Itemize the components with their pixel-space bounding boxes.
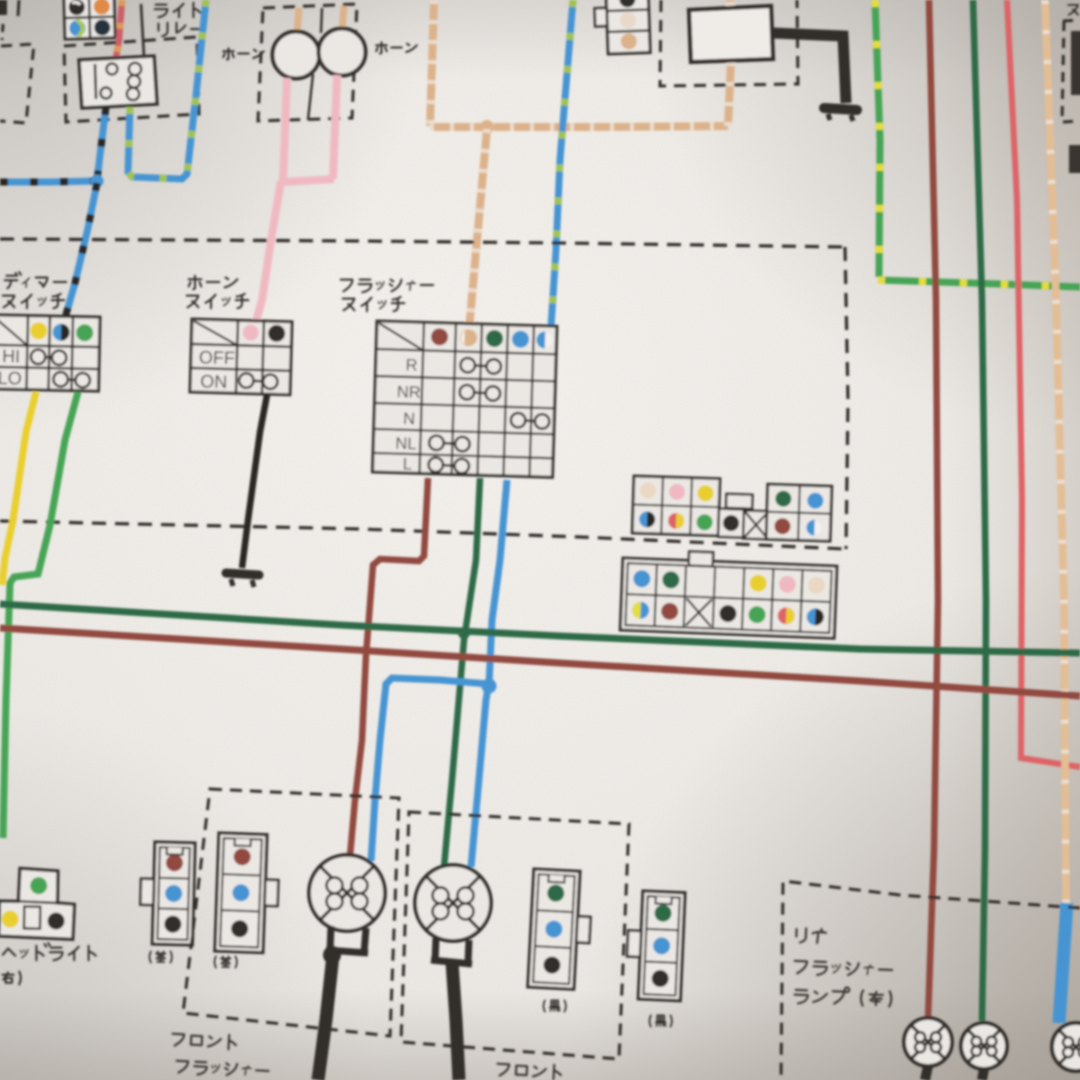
- horn switch table: [190, 319, 292, 395]
- front flasher lamp 2: [415, 865, 491, 941]
- front flasher dashed box 2: [401, 812, 629, 1059]
- wire blue junction down to dimmer switch: [65, 183, 97, 318]
- label front flasher 1: [172, 1032, 237, 1050]
- wire maroon vertical full height: [928, 0, 938, 1019]
- wire dark green vertical full height: [973, 0, 986, 1021]
- light relay dashed box: [64, 37, 199, 122]
- connector rear flasher C: [528, 869, 593, 990]
- wire red vertical + corner to right edge: [1007, 0, 1080, 767]
- horn circle left: [273, 32, 320, 79]
- wire pink from horns to horn switch: [283, 78, 287, 181]
- wire tan vertical right: [1045, 0, 1066, 904]
- dimmer switch table: [0, 315, 100, 391]
- partial component right edge: [1063, 20, 1080, 21]
- wire tan vertical through box: [728, 0, 731, 126]
- wire maroon horizontal across page: [0, 628, 1080, 696]
- dashed box around top-right unit: [660, 0, 798, 86]
- label light relay: [155, 3, 201, 17]
- wire blue branch to lamp 1: [371, 678, 488, 861]
- label dimmer switch: [5, 272, 67, 288]
- rear lamp at right edge: [1052, 1023, 1080, 1071]
- ground symbol below horn switch: [226, 573, 259, 575]
- svg-text:NL: NL: [395, 435, 417, 454]
- label horn switch: [189, 276, 238, 290]
- svg-text:ON: ON: [200, 371, 228, 392]
- connector front flasher A: [139, 842, 195, 945]
- wire blue relay pin to junction (black dashes): [97, 107, 106, 181]
- wire thick black to ground: [773, 33, 846, 103]
- wire blue from flasher switch down: [489, 480, 507, 685]
- connector fragment at left edge: [0, 0, 7, 15]
- unit box top right: [689, 6, 773, 62]
- wire green from dimmer: [3, 392, 78, 838]
- label horn left: [223, 48, 264, 59]
- label front flasher 2: [497, 1062, 562, 1080]
- label flasher switch: [341, 280, 434, 293]
- rear flasher lamp right: [961, 1023, 1007, 1069]
- front flasher dashed box 1: [183, 789, 399, 1036]
- svg-text:LO: LO: [0, 368, 22, 388]
- wire blue coil pin U-shape (yellow-green dashes): [128, 0, 206, 179]
- junction blue: [91, 175, 104, 188]
- svg-text:N: N: [403, 410, 415, 428]
- wire tan horizontal: [430, 126, 728, 127]
- headlight connector: [0, 868, 75, 939]
- svg-text:HI: HI: [2, 346, 20, 366]
- junction dark green: [458, 627, 470, 639]
- dashed boundary line bottom: [0, 521, 846, 549]
- light relay box: [79, 56, 157, 108]
- rear flasher dashed box: [781, 881, 1080, 1080]
- connector rear flasher D: [625, 890, 685, 1000]
- connector (1x3) top: [594, 0, 650, 54]
- wire green/yellow horizontal to right edge: [878, 280, 1080, 287]
- svg-text:L: L: [402, 455, 412, 473]
- wire tan vertical 1: [430, 0, 434, 126]
- wire green/yellow vertical + corner right: [875, 0, 880, 277]
- wire blue continues to lamp 2: [471, 688, 488, 867]
- wire red to light relay: [116, 0, 122, 58]
- wire maroon from flasher switch to front flasher lamp left: [350, 478, 428, 856]
- wire dark green from flasher switch to lamp 2: [444, 478, 480, 867]
- wire yellow from dimmer: [2, 392, 36, 585]
- relay contacts and coil: [95, 64, 96, 99]
- label horn right: [376, 42, 417, 53]
- connector (2x2) top-left: [64, 0, 115, 39]
- svg-text:R: R: [405, 356, 418, 374]
- wire blue horizontal from left edge: [0, 181, 96, 182]
- tan stubs to horns: [297, 8, 299, 33]
- horn circle right: [319, 29, 366, 76]
- connector lower middle: [620, 549, 837, 638]
- flasher switch table: [373, 321, 557, 478]
- lamp 1 base and black wire: [326, 926, 368, 953]
- connector upper middle: [632, 476, 832, 541]
- junction blue: [482, 679, 497, 694]
- wire blue to flasher switch (yellow-green dashes): [551, 0, 573, 327]
- dashed boundary right edge: [845, 247, 848, 549]
- dashed box fragment left edge: [0, 44, 34, 123]
- connector front flasher B: [215, 833, 280, 953]
- svg-text:OFF: OFF: [199, 347, 236, 368]
- horn dashed box: [258, 4, 357, 121]
- thin black pin wire: [141, 4, 144, 57]
- junction tan: [480, 120, 494, 134]
- horn center line: [321, 8, 322, 33]
- dashed boundary line top: [0, 239, 845, 247]
- rear flasher lamp left: [904, 1018, 952, 1066]
- front flasher lamp 1: [309, 855, 385, 931]
- lamp 2 base and black wire: [431, 938, 472, 964]
- label rear flasher lamp: [796, 928, 826, 943]
- wire dark green horizontal across page: [0, 604, 1080, 653]
- svg-text:NR: NR: [397, 383, 421, 402]
- label headlight: [3, 943, 96, 960]
- wire black from horn switch to ground: [242, 395, 267, 568]
- wire thick blue to rear lamp right: [1059, 903, 1067, 1023]
- ground symbol top right: [824, 108, 857, 110]
- wire tan branch down to flasher switch: [469, 129, 487, 330]
